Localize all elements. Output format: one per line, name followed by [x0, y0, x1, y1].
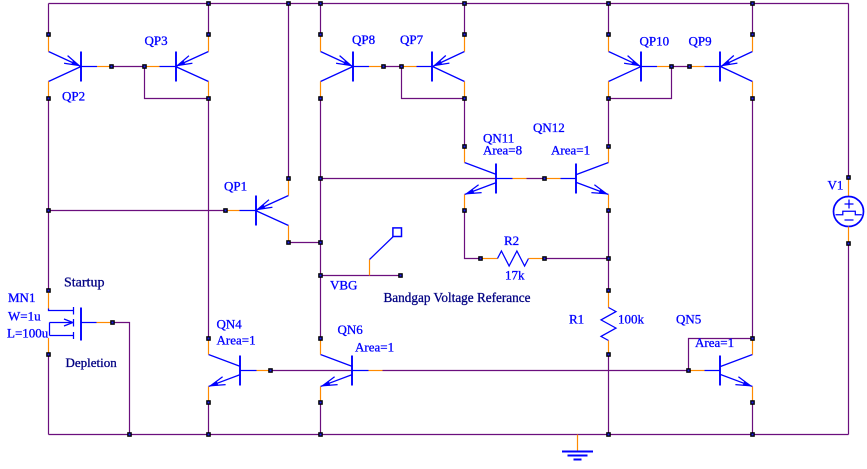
junction rail / QP3 emitter [206, 1, 211, 6]
transistor QP1 (PNP) [226, 180, 289, 242]
wire rail down to QP1 emitter [288, 4, 290, 177]
junction QN11/QN12 base [542, 176, 547, 181]
wire QP3 emitter to rail [208, 4, 210, 33]
wire QP2 collector down to QP1 base tap and MN1 drain [48, 101, 50, 289]
svg-text:QP10: QP10 [640, 34, 670, 49]
junction QP7 collector pin [462, 96, 467, 101]
junction QN4 emitter pin [206, 400, 211, 405]
junction QP8 emitter pin [318, 32, 323, 37]
junction QP2 base pin [109, 64, 114, 69]
junction MN1 source pin [46, 352, 51, 357]
wire V1 minus down to ground rail [848, 246, 850, 435]
junction QP7 base pin [399, 64, 404, 69]
wire R2 junction down to R1 top [608, 261, 610, 289]
junction rail / QP8 emitter [318, 1, 323, 6]
svg-text:17k: 17k [505, 268, 525, 283]
wire QP1 collector to VBG column [289, 242, 321, 244]
junction QP8 base pin [381, 64, 386, 69]
wire QN11 base to QN12 base [527, 178, 547, 180]
transistor QP3 (PNP) [145, 36, 209, 98]
junction MN1 gate pin [110, 320, 115, 325]
svg-text:VBG: VBG [330, 278, 357, 293]
junction QP2 collector / QP1 base tap [46, 208, 51, 213]
svg-text:QP9: QP9 [689, 34, 712, 49]
junction QP1 collector pin [286, 240, 291, 245]
svg-text:V1: V1 [828, 178, 844, 193]
wire QP3 collector down to QN4 collector [208, 101, 210, 337]
wire QP3 base-collector tie [145, 67, 207, 99]
svg-text:MN1: MN1 [8, 290, 35, 305]
transistor QP10 (PNP) [609, 36, 672, 98]
wire R2 right to R1 column [547, 258, 609, 260]
wire MN1 gate to ground rail [115, 323, 130, 435]
junction QP1 base pin [223, 208, 228, 213]
wire ground bottom rail [49, 434, 849, 436]
junction R2 node on R1 column [606, 256, 611, 261]
junction QN5 collector tie [750, 336, 755, 341]
wire QN11 emitter down to R2 left [465, 213, 479, 259]
svg-text:QP2: QP2 [62, 89, 85, 104]
junction QP9 collector pin [750, 96, 755, 101]
junction R2 left pin [478, 256, 483, 261]
junction QP10 collector pin [606, 96, 611, 101]
junction V1 minus pin [846, 241, 851, 246]
junction QN4 base pin [268, 368, 273, 373]
transistor QN4 (NPN) [209, 340, 271, 401]
wire QP7 base-collector tie [402, 67, 463, 99]
wire QN4 emitter to ground rail [208, 405, 210, 435]
svg-text:QN4: QN4 [217, 317, 243, 332]
svg-text:QP3: QP3 [145, 33, 168, 48]
wire R1 bottom to ground rail [608, 357, 610, 435]
svg-text:QP8: QP8 [352, 32, 375, 47]
transistor QN11 (NPN) [465, 148, 527, 209]
wire QP9 collector down to QN5 collector [752, 101, 754, 337]
junction QP8 collector pin [318, 96, 323, 101]
wire QP8 base to QP7 base [384, 66, 402, 68]
svg-text:Bandgap Voltage Referance: Bandgap Voltage Referance [384, 291, 531, 306]
wire MN1 source down to ground rail [48, 357, 50, 435]
svg-text:W=1u: W=1u [8, 309, 41, 324]
svg-text:Startup: Startup [64, 276, 104, 291]
resistor R1 [601, 293, 616, 353]
wire QN4 base to QN6 bar [273, 370, 353, 372]
junction rail / MN1 gate wire [127, 432, 132, 437]
junction QP7 emitter pin [462, 32, 467, 37]
junction QP2 emitter pin [46, 32, 51, 37]
wire right side VCC drop to V1 plus [848, 4, 850, 176]
junction rail / QN6 emitter [318, 432, 323, 437]
svg-text:Depletion: Depletion [66, 355, 118, 370]
wire VCC top rail [49, 3, 849, 5]
junction QP9 base pin [687, 64, 692, 69]
junction QP3 collector pin [206, 96, 211, 101]
junction node at QN11 base wire [318, 176, 323, 181]
svg-text:Area=1: Area=1 [551, 143, 590, 158]
transistor QP2 (PNP) [49, 36, 112, 98]
wire QP10 collector down to QN12 collector [608, 101, 610, 146]
voltage source V1 [834, 180, 864, 242]
junction R2 right pin [542, 256, 547, 261]
svg-text:100k: 100k [618, 312, 645, 327]
wire QP10 base to QP9 base [672, 66, 690, 68]
transistor QN12 (NPN) [547, 148, 609, 209]
svg-text:R1: R1 [569, 312, 584, 327]
junction QN11 emitter pin [462, 208, 467, 213]
transistor QN5 (NPN) [689, 340, 753, 401]
transistor QP8 (PNP) [321, 36, 384, 98]
svg-text:QP7: QP7 [400, 32, 424, 47]
junction QN12 collector pin [606, 144, 611, 149]
transistor QP7 (PNP) [402, 36, 465, 98]
wire QP9 emitter to rail [752, 4, 754, 33]
wire QN5 base-collector tie [689, 339, 751, 371]
wire QP7 emitter to rail [464, 4, 466, 33]
junction rail / QP9 emitter [750, 1, 755, 6]
wire QP8 collector down VBG node to QN6 collector [320, 101, 322, 337]
junction rail / QP10 emitter [606, 1, 611, 6]
junction QN5 base pin [686, 368, 691, 373]
svg-text:Area=1: Area=1 [695, 335, 734, 350]
wire QP10 base-collector tie [611, 67, 672, 99]
junction rail / QP1 emitter drop [286, 1, 291, 6]
wire VBG column to QN11 base [321, 178, 497, 180]
junction R1 top pin [606, 288, 611, 293]
wire QP2 emitter to rail [48, 4, 50, 33]
junction QN12 emitter pin [606, 208, 611, 213]
wire QN5 emitter to ground rail [752, 405, 754, 435]
junction rail / R1 [606, 432, 611, 437]
svg-text:QN5: QN5 [676, 312, 701, 327]
wire VBG node stub [321, 275, 401, 277]
ground [562, 435, 593, 460]
junction QP10 emitter pin [606, 32, 611, 37]
junction VBG column at QP1 collector [318, 240, 323, 245]
port VBG [370, 228, 402, 276]
svg-text:QN6: QN6 [338, 322, 364, 337]
junction MN1 drain pin [46, 288, 51, 293]
wire QP2 collector node to QP1 base [49, 210, 224, 212]
wire QN6 emitter to ground rail [320, 405, 322, 435]
svg-text:Area=1: Area=1 [355, 340, 394, 355]
wire QN12 emitter down to R2 right junction [608, 213, 610, 257]
wire QP8 emitter to rail [320, 4, 322, 33]
resistor R2 [483, 251, 543, 266]
svg-text:QN12: QN12 [533, 120, 565, 135]
junction QN6 collector pin [318, 336, 323, 341]
junction QN11 collector pin [462, 144, 467, 149]
junction QP3 emitter pin [206, 32, 211, 37]
transistor QN6 (NPN) [321, 340, 383, 401]
junction QP10 base pin [669, 64, 674, 69]
svg-text:Area=8: Area=8 [483, 143, 522, 158]
junction V1 plus pin [846, 175, 851, 180]
wire QP2 base to QP3 base [112, 66, 145, 68]
junction QP2 collector pin [46, 96, 51, 101]
junction R1 bottom pin [606, 352, 611, 357]
junction QP9 emitter pin [750, 32, 755, 37]
junction VBG column at port wire [318, 273, 323, 278]
svg-text:Area=1: Area=1 [217, 333, 256, 348]
junction rail / QP7 emitter [462, 1, 467, 6]
svg-text:R2: R2 [504, 233, 519, 248]
wire QP10 emitter to rail [608, 4, 610, 33]
junction QN5 emitter pin [750, 400, 755, 405]
wire QN6 base to QN5 base [383, 370, 687, 372]
svg-text:QP1: QP1 [224, 179, 247, 194]
junction rail / QN4 emitter [206, 432, 211, 437]
transistor MN1 (depletion NMOS) [49, 293, 112, 353]
junction QN4 collector pin [206, 336, 211, 341]
junction VBG port wire end [398, 273, 403, 278]
junction QN6 emitter pin [318, 400, 323, 405]
junction QP1 emitter pin [286, 176, 291, 181]
wire QP7 collector down to QN11 collector [464, 101, 466, 146]
svg-text:L=100u: L=100u [7, 326, 49, 341]
transistor QP9 (PNP) [690, 36, 753, 98]
junction rail / QN5 emitter [750, 432, 755, 437]
junction QP3 base pin [142, 64, 147, 69]
